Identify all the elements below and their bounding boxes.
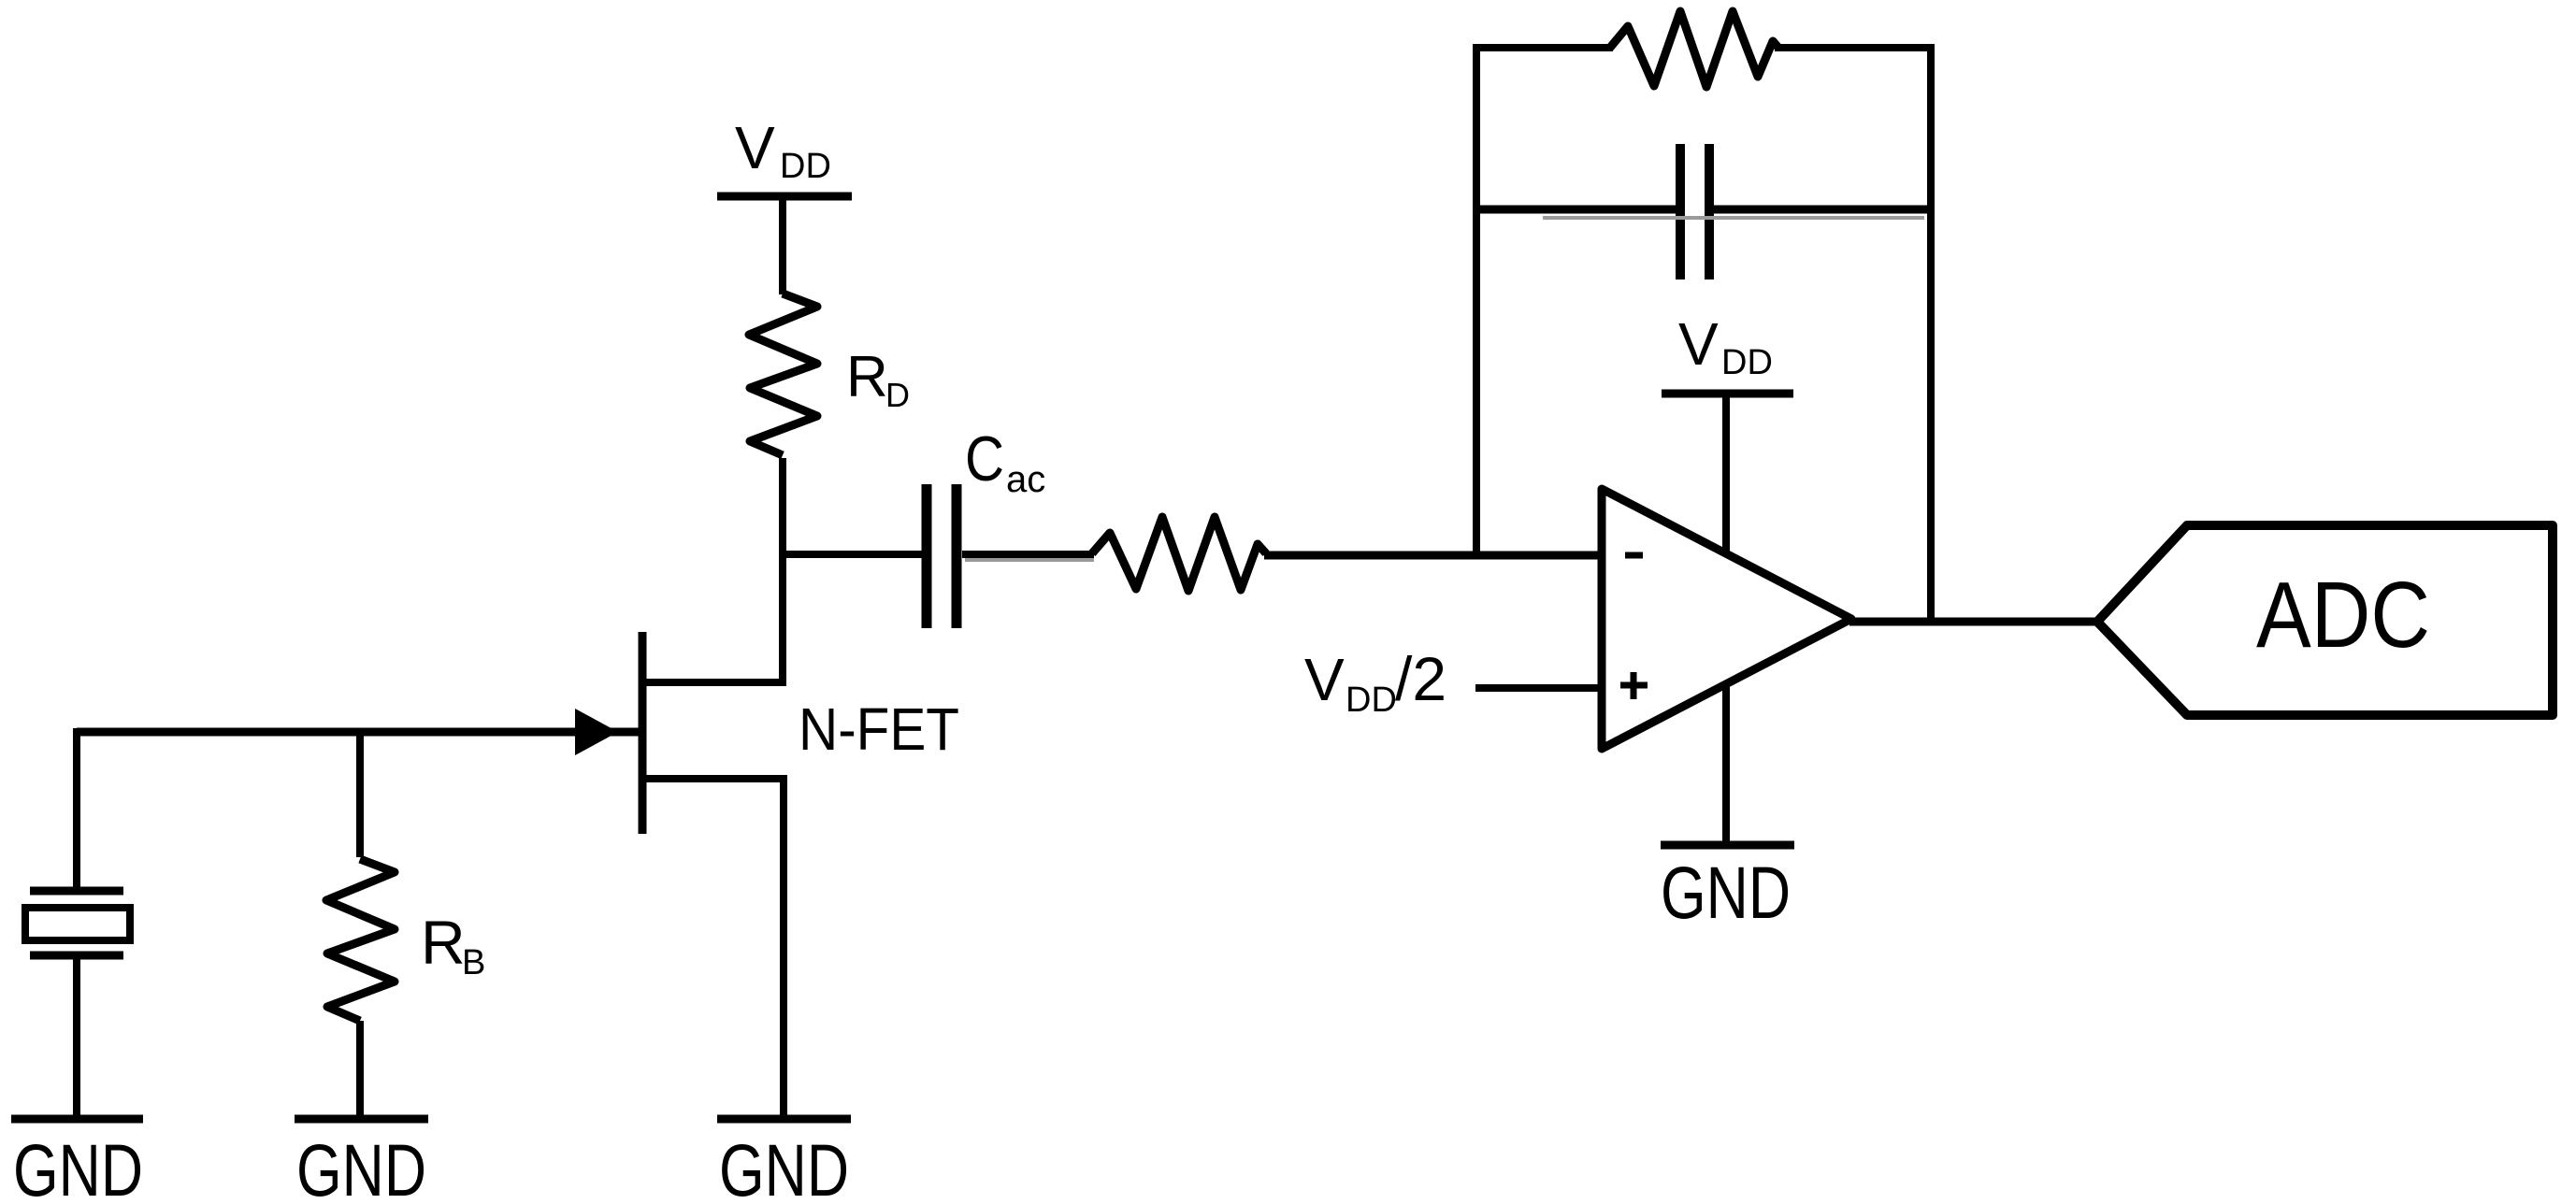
ground symbol left bbox=[11, 1115, 143, 1124]
svg-text:ac: ac bbox=[1006, 459, 1045, 500]
svg-text:V: V bbox=[1678, 310, 1719, 378]
capacitor C_ac right plate bbox=[952, 484, 962, 628]
wire op-amp ground stem bbox=[1722, 682, 1730, 845]
resistor input series bbox=[1092, 517, 1266, 591]
svg-text:V: V bbox=[1304, 646, 1345, 713]
wire gate net left vertical bbox=[73, 728, 80, 889]
wire feedback capacitor branch right bbox=[1713, 206, 1931, 214]
transistor Q1 drain lead bbox=[642, 679, 784, 686]
svg-text:GND: GND bbox=[719, 1128, 849, 1204]
capacitor feedback right plate bbox=[1705, 144, 1714, 279]
svg-text:DD: DD bbox=[1346, 681, 1397, 720]
op-amp U1 minus sign bbox=[1625, 552, 1643, 559]
wire C_ac to input resistor bbox=[962, 551, 1094, 558]
wire source to ground bbox=[780, 775, 787, 1119]
svg-text:N-FET: N-FET bbox=[799, 695, 959, 763]
wire feedback left vertical bbox=[1473, 44, 1480, 558]
wire input resistor to op-amp inverting input bbox=[1264, 552, 1602, 560]
crystal X1 top plate bbox=[30, 887, 123, 896]
svg-text:GND: GND bbox=[1661, 851, 1791, 934]
crystal X1 body bbox=[25, 908, 130, 940]
wire R_B bottom lead bbox=[356, 1021, 364, 1119]
wire R_D to drain node bbox=[779, 458, 786, 686]
svg-text:R: R bbox=[421, 908, 466, 977]
power symbol V_DD left bbox=[717, 193, 852, 201]
wire feedback top right segment bbox=[1775, 44, 1935, 51]
wire gate net horizontal bbox=[77, 728, 643, 737]
wire V_DD to R_D bbox=[779, 196, 786, 294]
svg-text:V: V bbox=[735, 114, 775, 181]
wire gray artifact under feedback capacitor branch bbox=[1543, 216, 1924, 220]
ground symbol op-amp bbox=[1661, 841, 1794, 850]
svg-text:C: C bbox=[965, 423, 1004, 494]
connector ADC tag bbox=[2097, 525, 2553, 715]
wire op-amp output bbox=[1849, 618, 2101, 626]
ground symbol N-FET source bbox=[717, 1115, 851, 1124]
wire feedback capacitor branch left bbox=[1473, 206, 1677, 214]
crystal X1 bottom plate bbox=[30, 952, 123, 960]
ground symbol middle bbox=[295, 1115, 428, 1124]
wire feedback top left segment bbox=[1473, 44, 1613, 51]
svg-text:GND: GND bbox=[296, 1128, 426, 1204]
svg-text:GND: GND bbox=[13, 1128, 143, 1204]
wire R_B top lead bbox=[356, 728, 364, 857]
wire drain node to C_ac bbox=[779, 551, 922, 558]
op-amp U1 bbox=[1602, 489, 1851, 749]
svg-text:D: D bbox=[885, 376, 910, 414]
svg-text:DD: DD bbox=[1721, 343, 1773, 382]
capacitor C_ac left plate bbox=[922, 484, 932, 628]
svg-text:B: B bbox=[462, 943, 485, 982]
wire feedback right vertical bbox=[1927, 44, 1935, 624]
svg-text:DD: DD bbox=[780, 147, 831, 186]
resistor R_D bbox=[749, 294, 817, 455]
op-amp U1 plus sign bbox=[1620, 682, 1648, 689]
transistor Q1 gate arrow bbox=[575, 709, 618, 755]
svg-text:ADC: ADC bbox=[2256, 563, 2430, 667]
transistor Q1 channel bar bbox=[639, 632, 647, 834]
power symbol V_DD op-amp bbox=[1662, 390, 1793, 398]
resistor R_B bbox=[326, 859, 395, 1021]
wire non-inverting input bbox=[1475, 684, 1602, 692]
wire gray artifact under inverting input wire bbox=[965, 558, 1094, 562]
capacitor feedback left plate bbox=[1676, 144, 1685, 279]
transistor Q1 source lead bbox=[642, 775, 784, 782]
svg-text:/2: /2 bbox=[1395, 644, 1446, 713]
svg-text:R: R bbox=[846, 345, 888, 409]
wire crystal to ground bbox=[73, 959, 80, 1119]
wire V_DD stem op-amp bbox=[1722, 394, 1730, 555]
resistor feedback bbox=[1609, 11, 1779, 87]
